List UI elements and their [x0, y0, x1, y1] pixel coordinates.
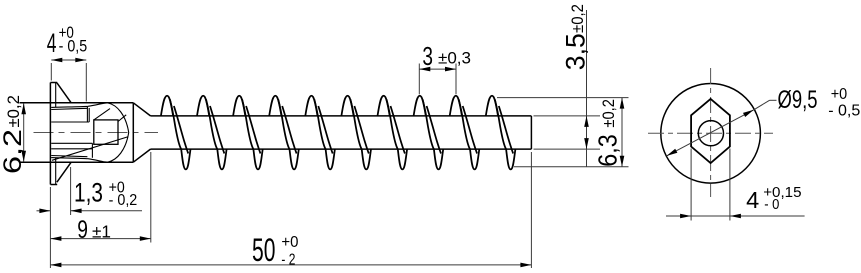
svg-text:4: 4 — [47, 28, 57, 58]
svg-text:3: 3 — [422, 42, 433, 70]
svg-text:- 0: - 0 — [764, 195, 779, 212]
svg-text:6,3: 6,3 — [594, 134, 622, 166]
svg-text:±0,3: ±0,3 — [438, 49, 471, 68]
svg-text:±0,2: ±0,2 — [4, 95, 23, 127]
svg-text:- 0,2: - 0,2 — [109, 191, 138, 209]
svg-text:4: 4 — [746, 187, 759, 213]
svg-text:- 2: - 2 — [281, 250, 295, 268]
svg-text:- 0,5: - 0,5 — [59, 38, 88, 56]
svg-text:±0,2: ±0,2 — [569, 4, 587, 33]
svg-text:1,3: 1,3 — [74, 178, 103, 208]
svg-text:6,2: 6,2 — [0, 129, 27, 174]
svg-text:+0: +0 — [281, 234, 298, 251]
svg-text:9: 9 — [77, 216, 88, 244]
svg-text:Ø9,5: Ø9,5 — [778, 85, 818, 113]
svg-text:±1: ±1 — [92, 221, 111, 241]
svg-text:3,5: 3,5 — [561, 33, 591, 70]
svg-text:±0,2: ±0,2 — [600, 99, 618, 128]
svg-text:50: 50 — [252, 231, 275, 268]
svg-text:- 0,5: - 0,5 — [828, 103, 860, 120]
svg-text:+0: +0 — [831, 86, 847, 104]
